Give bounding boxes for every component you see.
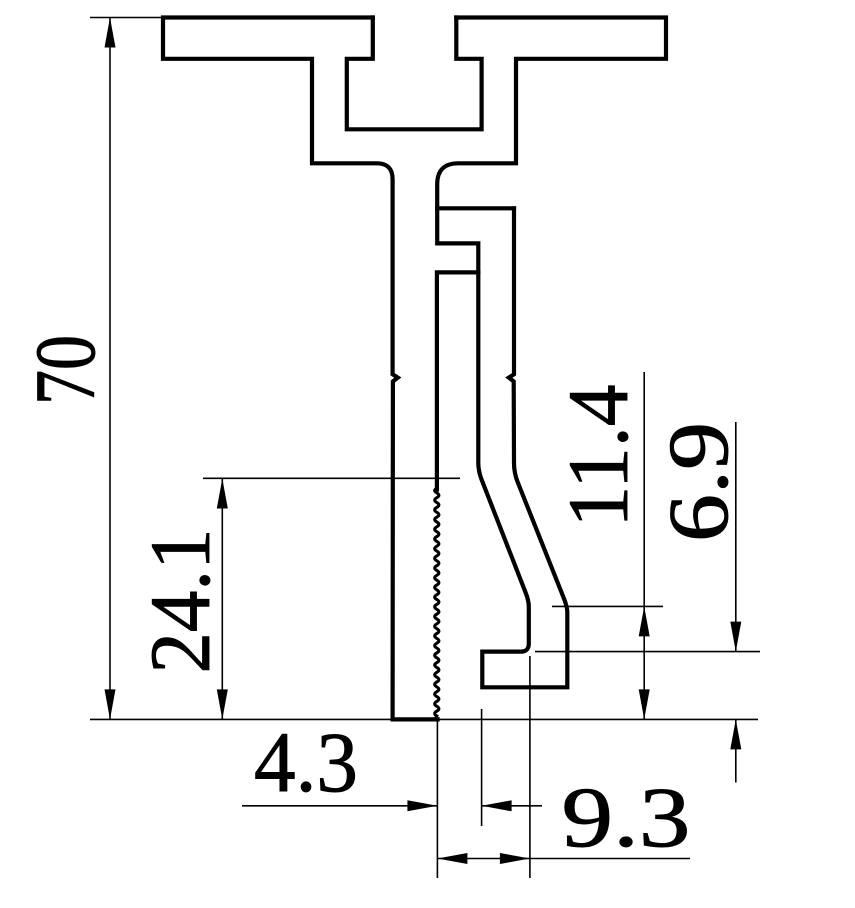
dimension line 4.3 left tail [242, 805, 437, 807]
extension line x437 [436, 721, 438, 878]
profile right wall and bottom foot hook [478, 208, 567, 687]
dimension line 6.9 upper [735, 422, 737, 652]
svg-text:24.1: 24.1 [132, 529, 228, 674]
extension line y651 [535, 651, 760, 653]
svg-text:6.9: 6.9 [650, 422, 746, 542]
arrow 11.4 bottom [639, 689, 650, 719]
arrow 6.9 bottom [730, 719, 741, 749]
dimension line 9.3 [437, 858, 690, 860]
arrow 9.3 right [500, 853, 530, 864]
dimension line 70 [109, 18, 111, 720]
svg-text:70: 70 [17, 335, 113, 405]
dimension line 6.9 lower [735, 719, 737, 782]
arrow 70 top [105, 18, 116, 48]
arrow 9.3 left [437, 853, 467, 864]
arrow 4.3 right [482, 800, 512, 811]
svg-text:11.4: 11.4 [550, 385, 646, 528]
profile ledge (right wall attachment) [437, 206, 514, 210]
arrow 4.3 left [407, 800, 437, 811]
extension line top left [90, 17, 163, 19]
extension line y606 [552, 605, 663, 607]
extension line x481 [481, 709, 483, 826]
extension line bottom [90, 718, 758, 720]
extension line y478 [203, 477, 460, 479]
profile top T-slot pocket [347, 18, 482, 130]
arrow 11.4 top [639, 606, 650, 636]
svg-text:4.3: 4.3 [254, 714, 358, 810]
profile left flange, left web and stem left edge [163, 18, 438, 720]
dimension line 4.3 right tail [482, 805, 542, 807]
arrow 70 bottom [105, 689, 116, 719]
arrow 24.1 bottom [217, 689, 228, 719]
dimension line 11.4 [643, 372, 645, 719]
profile serrated edge [435, 488, 439, 718]
svg-text:9.3: 9.3 [562, 769, 691, 865]
profile right flange, right web and stem right edge with tab [437, 18, 666, 490]
dimension line 24.1 [221, 479, 223, 720]
arrow 24.1 top [217, 479, 228, 509]
extension line x530 [529, 656, 531, 878]
arrow 6.9 top [730, 622, 741, 652]
